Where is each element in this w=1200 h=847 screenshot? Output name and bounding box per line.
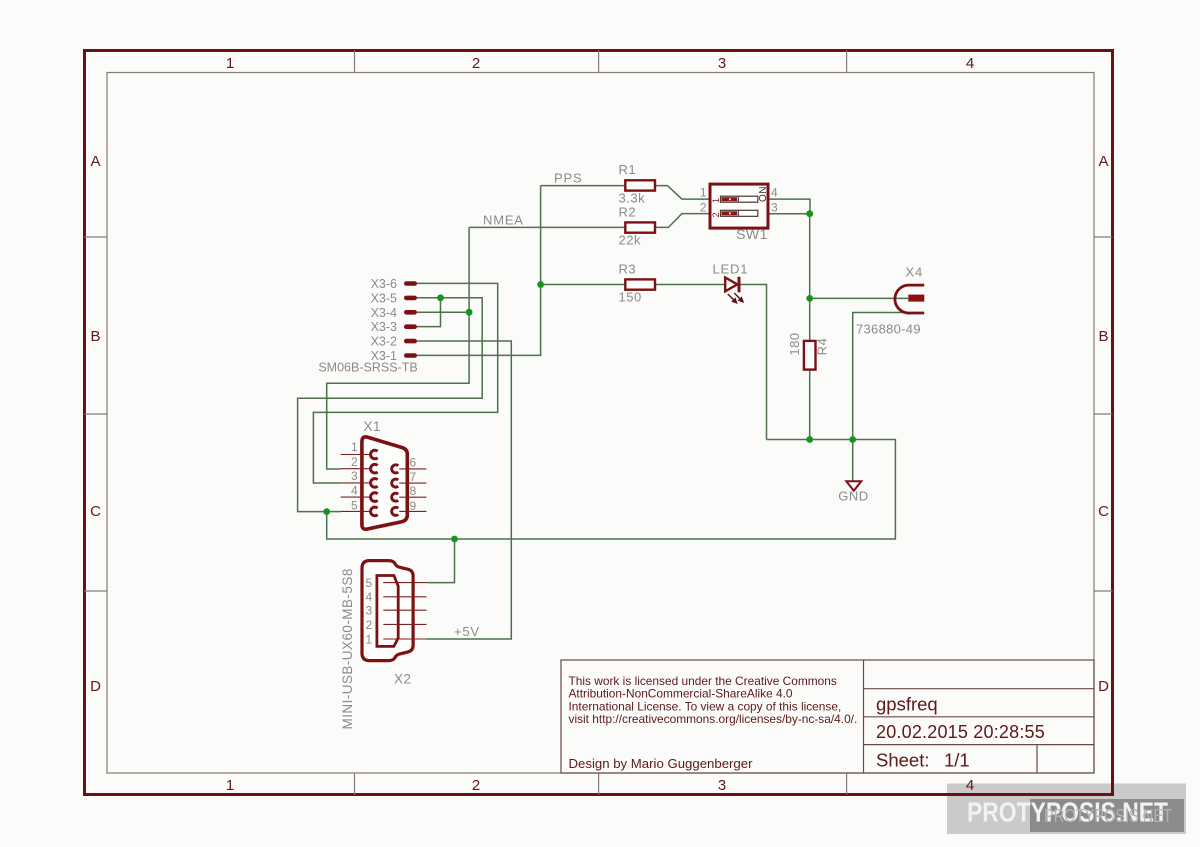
title block outline [561, 660, 1094, 773]
svg-text:NMEA: NMEA [483, 213, 524, 228]
connector X2 body [362, 561, 413, 661]
svg-text:D: D [1098, 678, 1109, 695]
wire SW1 pin3 to output node [768, 214, 810, 299]
X1 pin numbers right [410, 456, 417, 514]
svg-text:5: 5 [351, 499, 358, 513]
svg-text:ON: ON [758, 186, 769, 202]
svg-text:B: B [90, 328, 100, 345]
switch SW1 slider 1 [721, 196, 758, 202]
svg-text:gpsfreq: gpsfreq [876, 694, 938, 715]
connector X1 body [362, 437, 407, 529]
wire X3-2 to +5V [417, 341, 511, 639]
frame row tick B-C right [1094, 413, 1113, 415]
svg-text:LED1: LED1 [713, 262, 749, 277]
svg-text:C: C [1098, 503, 1109, 520]
wire X3-5 to ground net [298, 298, 483, 512]
svg-text:GND: GND [838, 489, 868, 504]
wire SW1 pin4 to output [768, 199, 810, 214]
frame column tick 2-3 top [598, 51, 600, 73]
frame inner border [107, 73, 1094, 774]
svg-text:2: 2 [700, 201, 707, 215]
svg-text:1: 1 [351, 440, 358, 454]
resistor R2 [625, 222, 655, 232]
svg-text:1/1: 1/1 [944, 750, 970, 771]
wire ground bus horizontal [327, 440, 896, 540]
resistor R3 [625, 279, 655, 289]
svg-text:X4: X4 [906, 265, 924, 280]
svg-text:1: 1 [711, 198, 721, 203]
junction X2 pin5/ground bus [451, 536, 458, 543]
X2 pin numbers [366, 576, 373, 647]
watermark light bar [947, 784, 1186, 835]
switch SW1 body [710, 184, 768, 228]
svg-text:2: 2 [351, 455, 358, 469]
svg-text:B: B [1098, 328, 1108, 345]
svg-text:1: 1 [700, 186, 707, 200]
title block row line 1 [864, 688, 1095, 690]
svg-text:1: 1 [366, 633, 373, 647]
connector X4 [895, 285, 924, 313]
svg-text:C: C [90, 503, 101, 520]
frame column tick 1-2 bottom [354, 773, 356, 795]
svg-text:X3-5: X3-5 [371, 291, 397, 305]
wire PPS vertical down to R3 junction [540, 186, 542, 285]
svg-text:X3-6: X3-6 [371, 277, 397, 291]
resistor R1 [625, 180, 655, 190]
svg-text:4: 4 [351, 484, 358, 498]
wire X4 shield to ground bus [853, 313, 911, 440]
wire NMEA horizontal [469, 226, 625, 228]
wire X2 pin5 to ground bus [427, 539, 455, 583]
connector X3 pins [404, 281, 417, 358]
svg-text:PPS: PPS [554, 171, 582, 186]
wire R2 to SW1 pin2 [655, 214, 710, 228]
junction PPS/R3/X3-1 [537, 281, 544, 288]
svg-text:visit http://creativecommons.o: visit http://creativecommons.org/license… [569, 712, 858, 726]
svg-text:A: A [1098, 153, 1108, 170]
title block sheet cell divider [1036, 745, 1038, 773]
frame column tick 3-4 bottom [846, 773, 848, 795]
svg-text:22k: 22k [619, 233, 641, 248]
svg-text:3.3k: 3.3k [619, 191, 646, 206]
wire R3 left [541, 284, 626, 286]
frame column tick 2-3 bottom [598, 773, 600, 795]
X3-2 pin [404, 339, 417, 344]
svg-text:R3: R3 [619, 262, 637, 277]
wire X3-4 to NMEA [417, 311, 469, 313]
svg-text:+5V: +5V [454, 624, 480, 639]
svg-text:SM06B-SRSS-TB: SM06B-SRSS-TB [318, 361, 417, 375]
wire output to X4 pin [810, 297, 909, 299]
svg-text:1: 1 [226, 777, 234, 794]
svg-text:3: 3 [351, 469, 358, 483]
svg-text:Sheet:: Sheet: [876, 750, 930, 771]
junction X4 shield/ground [849, 436, 856, 443]
frame outer border [85, 51, 1113, 795]
svg-text:1: 1 [226, 55, 234, 72]
svg-text:X3-2: X3-2 [371, 335, 397, 349]
svg-text:R1: R1 [619, 162, 637, 177]
svg-text:150: 150 [619, 290, 642, 305]
junction R4 bottom/ground bus [806, 436, 813, 443]
switch SW1 slider 2 [721, 210, 758, 216]
wire X3-3 to X3-5 [417, 298, 441, 327]
title block vertical divider [863, 660, 865, 773]
X1 left pin arcs [371, 450, 378, 516]
frame row tick B-C left [85, 413, 108, 415]
X3-6 pin [404, 281, 417, 286]
X1 left pin lines [341, 455, 371, 512]
junction X3-4/NMEA [466, 309, 473, 316]
frame row tick C-D right [1094, 590, 1113, 592]
svg-text:A: A [90, 153, 100, 170]
svg-text:9: 9 [410, 499, 417, 513]
svg-text:SW1: SW1 [736, 226, 768, 242]
svg-text:PROTYPOSIS.NET: PROTYPOSIS.NET [1044, 806, 1172, 826]
svg-text:3: 3 [718, 55, 726, 72]
svg-text:D: D [90, 678, 101, 695]
X3-4 pin [404, 310, 417, 315]
svg-text:Design by Mario Guggenberger: Design by Mario Guggenberger [569, 756, 754, 771]
wire R4 bottom to ground bus [809, 370, 811, 440]
svg-text:4: 4 [771, 186, 778, 200]
wire ground symbol stub [852, 440, 854, 481]
wire LED1 to ground bus [740, 285, 767, 440]
frame row tick C-D left [85, 590, 108, 592]
svg-text:4: 4 [966, 55, 974, 72]
svg-text:2: 2 [711, 212, 721, 217]
svg-text:4: 4 [966, 777, 974, 794]
svg-text:3: 3 [771, 201, 778, 215]
junction X1 pin5/ground [323, 508, 330, 515]
frame row tick A-B right [1094, 236, 1113, 238]
X3-5 pin [404, 296, 417, 301]
wire X3-6 to X1 pin3 [313, 283, 497, 483]
svg-text:5: 5 [366, 576, 373, 590]
X1 right pin arcs [392, 465, 399, 516]
frame row tick A-B left [85, 236, 108, 238]
svg-text:R2: R2 [619, 205, 637, 220]
X2 pin lines [383, 583, 426, 639]
X1 pin numbers left [351, 440, 358, 513]
junction output/X4/R4 [806, 295, 813, 302]
svg-text:8: 8 [410, 484, 417, 498]
svg-text:7: 7 [410, 470, 417, 484]
X2 inner contact [377, 576, 398, 647]
X1 right pin lines [399, 469, 426, 512]
wire NMEA to X1 pin2 [327, 227, 469, 469]
resistor R4 [804, 341, 816, 370]
svg-text:3: 3 [718, 777, 726, 794]
frame column tick 3-4 top [846, 51, 848, 73]
svg-text:2: 2 [472, 55, 480, 72]
svg-text:X1: X1 [364, 419, 382, 434]
X3-1 pin [404, 353, 417, 358]
wire X1 pin5 to ground junction [327, 511, 341, 513]
wire R3 to LED1 [655, 284, 725, 286]
watermark dark box [1030, 799, 1184, 832]
svg-text:4: 4 [366, 590, 373, 604]
svg-text:MINI-USB-UX60-MB-5S8: MINI-USB-UX60-MB-5S8 [340, 568, 355, 729]
svg-text:X3-3: X3-3 [371, 320, 397, 334]
LED1 light arrows [728, 293, 743, 303]
wire PPS to X3-1 [417, 285, 541, 356]
svg-text:2: 2 [366, 618, 373, 632]
svg-text:736880-49: 736880-49 [856, 322, 921, 337]
X3-3 pin [404, 324, 417, 329]
wire R1 to SW1 pin1 [655, 186, 710, 200]
junction X3-5/X3-3 [437, 294, 444, 301]
title block row line 3 [864, 744, 1095, 746]
svg-text:20.02.2015 20:28:55: 20.02.2015 20:28:55 [876, 722, 1045, 742]
svg-text:X2: X2 [394, 672, 412, 687]
svg-text:R4: R4 [815, 338, 830, 356]
wire PPS horizontal [541, 185, 626, 187]
svg-text:180: 180 [787, 332, 802, 355]
frame column tick 1-2 top [354, 51, 356, 73]
junction SW1 pin3/pin4 [806, 210, 813, 217]
title block row line 2 [864, 716, 1095, 718]
svg-text:3: 3 [366, 604, 373, 618]
wire output to R4 top [809, 298, 811, 341]
svg-text:2: 2 [472, 777, 480, 794]
svg-text:6: 6 [410, 456, 417, 470]
svg-text:X3-4: X3-4 [371, 306, 397, 320]
ground symbol GND [846, 481, 861, 491]
LED LED1 [725, 277, 739, 293]
